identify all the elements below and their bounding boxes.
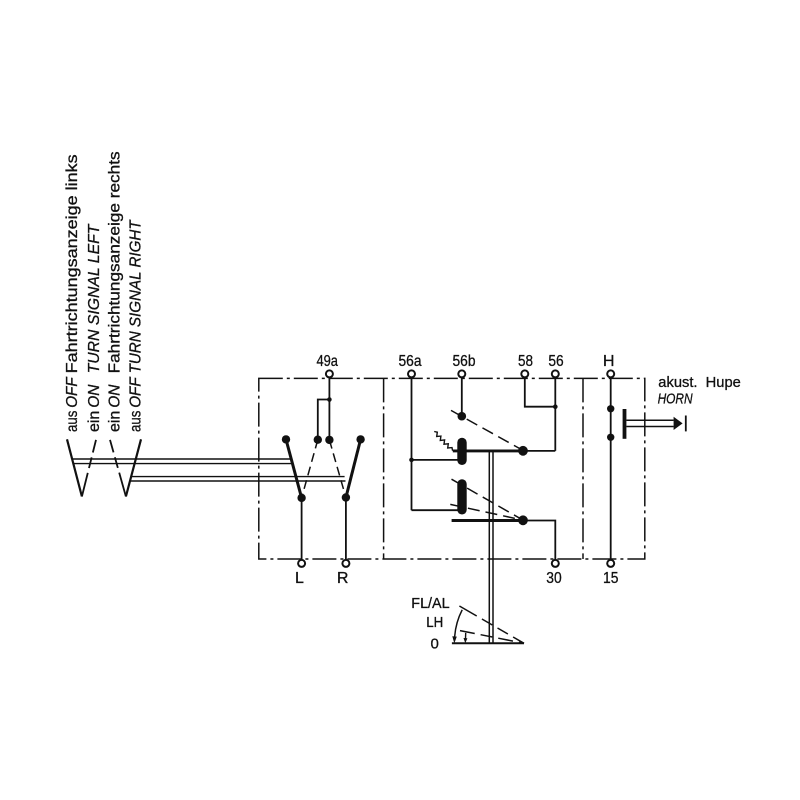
spring contact spring zigzag: [434, 432, 452, 451]
wire terminal 56b lead: [461, 377, 463, 416]
wire mechanical linkage lower pair: [130, 477, 345, 481]
node terminal 56b: [458, 370, 465, 377]
label column aus OFF Fahrtrichtungsanzeige links: [64, 154, 81, 432]
svg-text:ein: ein: [86, 411, 103, 432]
node contact dot left inner: [314, 436, 322, 444]
wire terminal 56a lead: [411, 377, 413, 510]
node contact dot right outer: [356, 435, 364, 443]
wire 56a to upper contact blade: [412, 459, 458, 461]
svg-text:0: 0: [431, 635, 439, 652]
node moving contact lower: [518, 515, 528, 525]
node junction 49a fork: [327, 397, 332, 402]
svg-text:L: L: [295, 570, 304, 587]
contact lower pill: [457, 479, 466, 514]
wire terminal 49a lead: [328, 377, 330, 440]
svg-text:15: 15: [603, 570, 618, 587]
node terminal 49a: [326, 370, 333, 377]
svg-text:FL/AL: FL/AL: [411, 595, 449, 612]
svg-text:ein: ein: [107, 411, 124, 432]
svg-text:56b: 56b: [453, 353, 476, 370]
label column ein ON TURN SIGNAL LEFT: [86, 223, 103, 432]
switch flasher upper alternate position dashed: [451, 410, 523, 450]
actuating rod double line: [489, 452, 493, 644]
wire terminal 58 lead: [525, 377, 556, 406]
svg-text:TURN SIGNAL RIGHT: TURN SIGNAL RIGHT: [128, 219, 145, 373]
node cam rotation arc with arrow: [455, 610, 463, 638]
wire terminal L lead: [301, 498, 303, 560]
node cam small arrow LH: [465, 633, 467, 639]
wire upper contact to 56: [523, 450, 555, 452]
node terminal 15: [607, 560, 614, 567]
wire position line ein-right dashed: [110, 440, 126, 497]
node terminal 58: [521, 370, 528, 377]
wire separator flasher / horn sections: [582, 378, 584, 559]
node moving contact upper: [518, 446, 528, 456]
node terminal 30: [552, 560, 559, 567]
svg-text:LH: LH: [426, 614, 443, 631]
svg-text:56a: 56a: [399, 353, 422, 370]
svg-text:H: H: [603, 353, 615, 370]
wire separator turn-signal / flasher sections: [383, 378, 385, 559]
switch flasher lower alternate position dashed lower: [450, 504, 523, 520]
svg-text:Fahrtrichtungsanzeige links: Fahrtrichtungsanzeige links: [64, 154, 81, 373]
svg-text:56: 56: [548, 353, 563, 370]
svg-text:30: 30: [546, 570, 561, 587]
node horn contact lower dot: [607, 434, 614, 441]
switch lever R closed position thick: [346, 439, 361, 497]
node cam position line FL/AL dashed: [459, 606, 524, 643]
label column ein ON Fahrtrichtungsanzeige rechts: [107, 151, 124, 432]
node cam baseline 0 position: [452, 642, 524, 644]
contact upper blade bar thick: [453, 449, 523, 452]
wire terminal R lead: [345, 498, 347, 561]
wire mechanical linkage upper pair: [72, 459, 293, 464]
wire terminal H to terminal 15 lead: [610, 377, 612, 560]
switch flasher lower alternate position dashed upper: [452, 479, 524, 520]
svg-text:akust. Hupe: akust. Hupe: [658, 374, 741, 391]
svg-text:TURN SIGNAL LEFT: TURN SIGNAL LEFT: [86, 223, 103, 373]
svg-text:ON: ON: [86, 384, 103, 408]
wire terminal 56 lead: [554, 377, 556, 451]
node pivot dot L: [297, 494, 305, 502]
contact upper pill: [457, 438, 466, 465]
switch lever R alternate position dashed: [329, 440, 346, 498]
wire horn push arrow: [674, 417, 683, 430]
node junction 58/56: [553, 404, 558, 409]
wire position line ein-left dashed: [82, 440, 96, 497]
contact lower blade bar thick: [452, 519, 523, 522]
node cam position line LH dashed: [460, 631, 524, 644]
wire horn push rod double line: [626, 420, 673, 426]
node pivot dot R: [342, 493, 350, 501]
switch lever L alternate position dashed: [302, 440, 318, 498]
svg-text:aus: aus: [128, 411, 145, 432]
node aus/ein position indicator V left: [67, 439, 141, 496]
svg-text:58: 58: [518, 353, 533, 370]
node horn contact upper dot: [607, 405, 614, 412]
svg-text:aus: aus: [64, 411, 81, 432]
node contact dot right inner: [325, 436, 333, 444]
svg-text:49a: 49a: [316, 353, 338, 370]
node terminal H: [607, 370, 614, 377]
node switch assembly enclosure dashed box: [259, 378, 645, 559]
wire 56a to lower contact blade: [412, 509, 458, 511]
wire position line aus-right solid: [126, 439, 141, 496]
switch lever L closed position thick: [286, 439, 302, 498]
node terminal R: [342, 560, 349, 567]
wire position line aus-left solid: [67, 439, 82, 496]
node terminal 56a: [408, 370, 415, 377]
node pivot dot 56b: [458, 412, 467, 421]
svg-text:OFF: OFF: [128, 376, 145, 408]
node contact dot left outer: [282, 435, 290, 443]
node junction 56a upper branch: [409, 458, 414, 463]
svg-text:R: R: [337, 570, 349, 587]
label column aus OFF TURN SIGNAL RIGHT: [128, 219, 145, 432]
svg-text:HORN: HORN: [658, 391, 693, 408]
wire lower contact to terminal 30: [523, 521, 555, 561]
wire horn push end stop tick: [685, 416, 687, 432]
svg-text:ON: ON: [107, 384, 124, 408]
node terminal L: [298, 560, 305, 567]
svg-text:OFF: OFF: [64, 376, 81, 408]
node terminal 56: [552, 370, 559, 377]
switch horn push button bar: [623, 409, 627, 439]
svg-text:Fahrtrichtungsanzeige rechts: Fahrtrichtungsanzeige rechts: [107, 151, 124, 373]
wire 49a branch to left contact: [318, 400, 330, 440]
